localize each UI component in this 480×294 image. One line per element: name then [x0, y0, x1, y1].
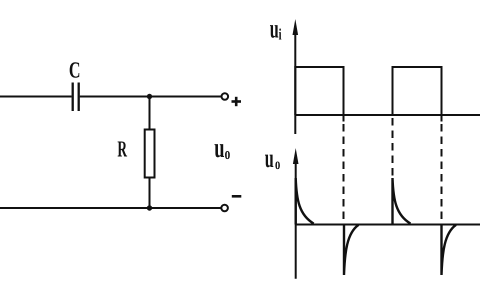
spike 1: positive exponential at t=0 — [296, 178, 314, 225]
node: bottom junction — [147, 205, 152, 210]
square wave pulse 1 — [295, 67, 343, 122]
svg-text:u: u — [214, 133, 224, 164]
terminal: output - — [221, 205, 228, 212]
wire: input top from left edge to capacitor — [0, 96, 72, 98]
axis: u_o horizontal baseline — [296, 224, 480, 226]
axis: u_i horizontal baseline — [295, 114, 480, 116]
label u_i — [270, 14, 282, 44]
spike 4: negative exponential at second falling edge — [442, 225, 457, 276]
svg-text:C: C — [69, 58, 81, 83]
svg-text:o: o — [225, 144, 231, 163]
wire: bottom from left edge to minus terminal — [0, 207, 221, 209]
capacitor C — [73, 83, 79, 112]
axis: u_o vertical with arrow — [295, 155, 297, 279]
resistor R — [149, 97, 151, 130]
dashed guide line at second rising edge — [392, 118, 394, 176]
terminal: output + — [222, 93, 229, 100]
dashed guide line at first falling edge — [343, 124, 345, 225]
wire: capacitor to plus terminal — [80, 96, 221, 98]
dashed guide line at second falling edge — [441, 124, 443, 225]
spike 3: positive exponential at second rising edge — [393, 178, 411, 225]
svg-text:R: R — [117, 137, 127, 162]
label u_o (axis) — [265, 143, 280, 173]
square wave pulse 2 — [393, 67, 442, 122]
axis: u_i vertical with arrow — [294, 26, 296, 134]
svg-text:u: u — [265, 143, 274, 173]
svg-text:i: i — [279, 27, 282, 44]
svg-text:o: o — [275, 156, 280, 173]
label u_o (output voltage) — [214, 133, 230, 164]
node: top junction — [147, 94, 152, 99]
svg-text:u: u — [270, 14, 279, 44]
spike 2: negative exponential at first falling edge — [344, 225, 359, 276]
